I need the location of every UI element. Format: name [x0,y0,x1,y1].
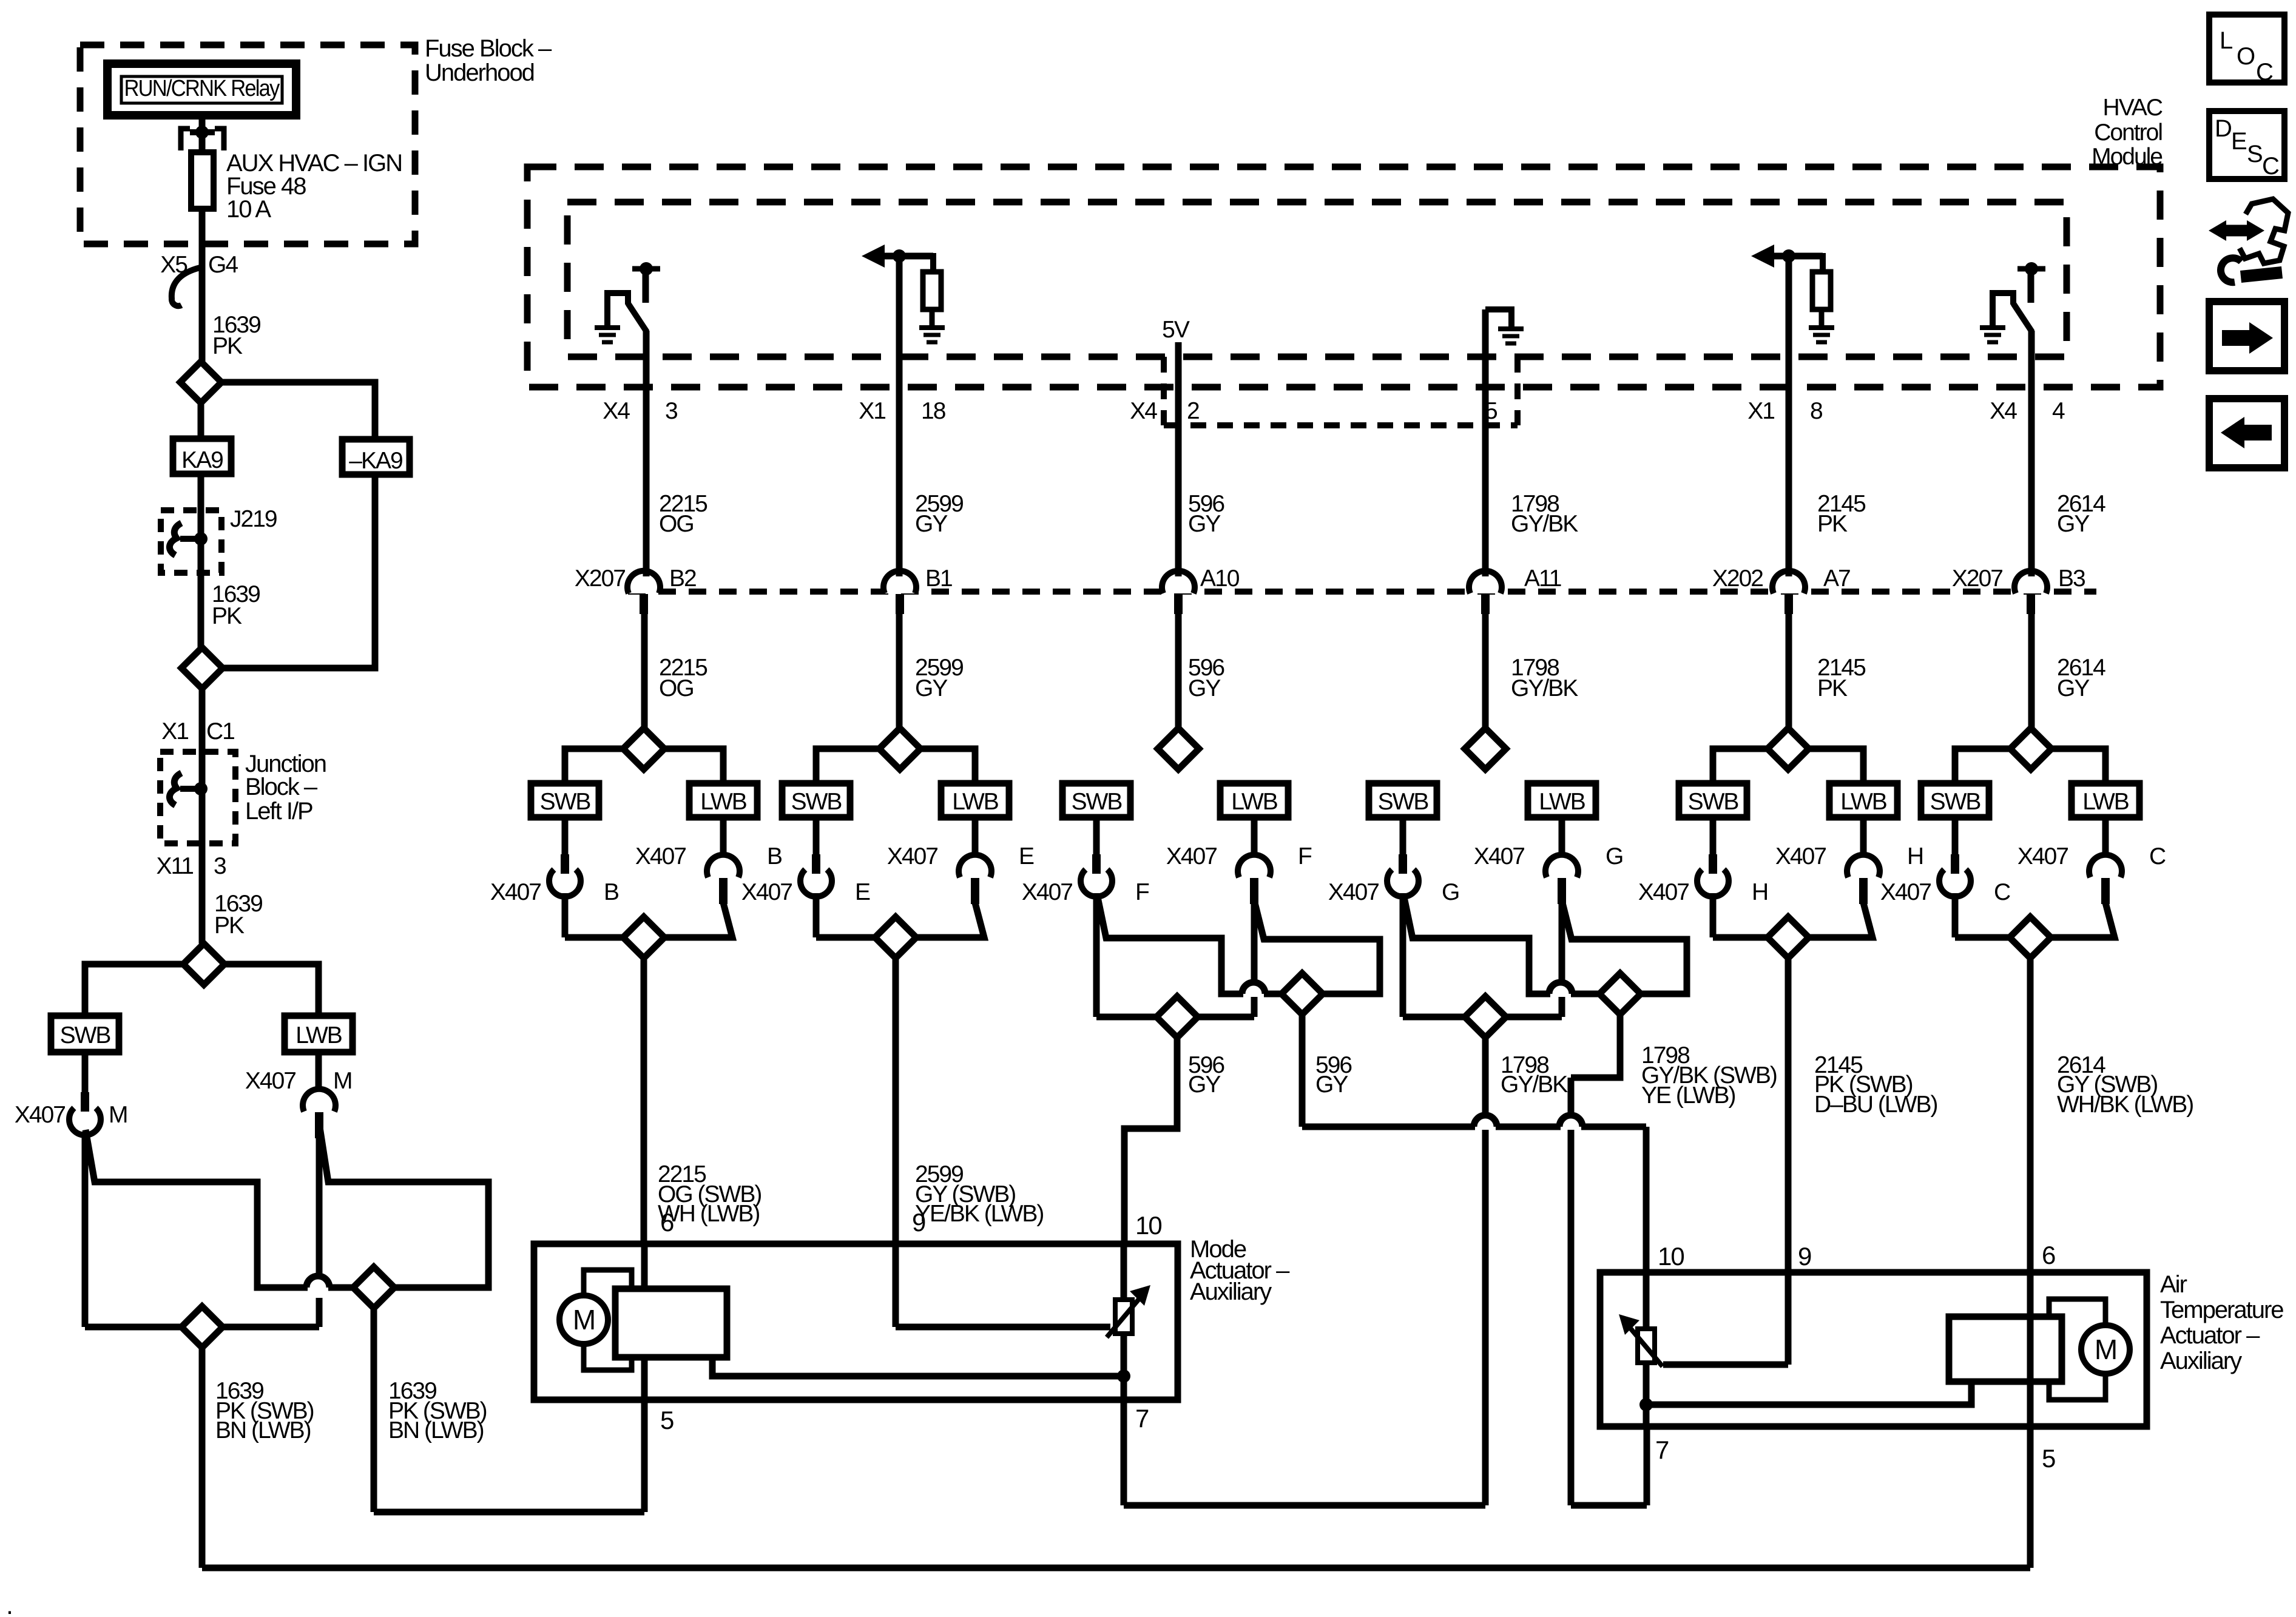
svg-text:Control: Control [2094,120,2162,146]
svg-text:X1: X1 [859,398,885,424]
svg-text:18: 18 [921,398,945,424]
svg-text:OG: OG [659,511,694,537]
svg-text:X4: X4 [1130,398,1157,424]
svg-text:Underhood: Underhood [425,59,534,86]
svg-text:A11: A11 [1524,565,1561,592]
svg-text:SWB: SWB [1378,789,1428,815]
svg-text:X202: X202 [1712,565,1763,592]
svg-text:GY: GY [915,511,948,537]
svg-text:SWB: SWB [1930,789,1980,815]
svg-text:5: 5 [660,1406,674,1434]
svg-text:X407: X407 [1328,879,1379,905]
svg-text:C: C [2149,843,2166,869]
svg-text:X407: X407 [1775,843,1826,869]
svg-text:PK: PK [1817,511,1848,537]
svg-text:E: E [855,879,870,905]
svg-text:4: 4 [2052,398,2065,424]
svg-text:PK: PK [1817,675,1848,701]
svg-text:B2: B2 [669,565,696,592]
svg-text:X407: X407 [887,843,937,869]
svg-text:6: 6 [2042,1241,2055,1269]
svg-text:G: G [1606,843,1622,869]
svg-text:O: O [2237,43,2255,70]
svg-text:LWB: LWB [2082,789,2129,815]
svg-text:X207: X207 [575,565,625,592]
svg-text:GY: GY [915,675,948,701]
svg-text:B1: B1 [925,565,952,592]
svg-text:5: 5 [2042,1444,2055,1473]
svg-text:7: 7 [1135,1404,1149,1433]
svg-text:X407: X407 [1638,879,1689,905]
svg-text:Left I/P: Left I/P [245,798,312,825]
svg-text:X407: X407 [1022,879,1072,905]
svg-text:YE/BK (LWB): YE/BK (LWB) [915,1201,1043,1227]
svg-text:H: H [1752,879,1768,905]
svg-text:SWB: SWB [791,789,842,815]
svg-text:GY: GY [2057,675,2090,701]
svg-text:X1: X1 [161,718,188,744]
svg-text:L: L [2220,27,2232,54]
svg-text:Fuse Block –: Fuse Block – [425,35,552,62]
svg-text:GY/BK: GY/BK [1511,511,1578,537]
svg-text:J219: J219 [230,506,277,532]
svg-text:LWB: LWB [1840,789,1886,815]
svg-text:M: M [109,1102,127,1128]
svg-text:9: 9 [1798,1242,1811,1271]
svg-text:GY: GY [1188,675,1221,701]
svg-text:Auxiliary: Auxiliary [1190,1278,1272,1305]
svg-text:SWB: SWB [60,1022,110,1048]
svg-text:PK: PK [214,913,245,939]
svg-text:5V: 5V [1162,317,1190,343]
svg-text:C: C [2256,59,2273,86]
svg-text:HVAC: HVAC [2103,95,2163,121]
svg-text:X407: X407 [245,1068,295,1094]
svg-text:10 A: 10 A [226,196,271,223]
svg-text:KA9: KA9 [181,447,223,473]
svg-text:Air: Air [2160,1271,2187,1298]
svg-text:A7: A7 [1823,565,1850,592]
svg-text:Actuator –: Actuator – [2160,1322,2260,1349]
svg-text:Module: Module [2092,144,2162,170]
svg-text:C: C [2262,153,2279,180]
svg-text:PK: PK [212,603,242,629]
svg-text:M: M [573,1304,595,1335]
svg-text:7: 7 [1655,1436,1669,1464]
svg-text:X407: X407 [1880,879,1931,905]
svg-text:X407: X407 [635,843,686,869]
svg-text:10: 10 [1658,1242,1684,1271]
svg-text:WH/BK (LWB): WH/BK (LWB) [2057,1092,2193,1118]
svg-text:C: C [1994,879,2010,905]
svg-text:X5: X5 [160,252,187,278]
svg-text:B: B [604,879,618,905]
svg-text:C1: C1 [206,718,234,744]
svg-text:LWB: LWB [1231,789,1277,815]
svg-text:GY: GY [2057,511,2090,537]
svg-text:X407: X407 [490,879,541,905]
svg-text:SWB: SWB [1688,789,1738,815]
svg-text:Block –: Block – [245,774,318,800]
svg-text:OG: OG [659,675,694,701]
svg-text:8: 8 [1810,398,1822,424]
svg-text:LWB: LWB [295,1022,342,1048]
svg-text:PK: PK [212,333,243,359]
svg-text:GY/BK: GY/BK [1511,675,1578,701]
svg-text:M: M [2095,1334,2116,1365]
svg-text:9: 9 [912,1208,925,1237]
svg-text:H: H [1907,843,1923,869]
svg-text:GY: GY [1188,511,1221,537]
svg-text:S: S [2247,141,2262,167]
svg-text:GY: GY [1188,1072,1221,1098]
svg-text:X407: X407 [1474,843,1524,869]
svg-text:YE (LWB): YE (LWB) [1641,1082,1735,1109]
svg-text:D–BU (LWB): D–BU (LWB) [1814,1092,1937,1118]
svg-text:Temperature: Temperature [2160,1297,2283,1323]
svg-text:X4: X4 [603,398,630,424]
svg-text:X407: X407 [741,879,792,905]
svg-text:SWB: SWB [540,789,590,815]
svg-text:LWB: LWB [700,789,746,815]
svg-text:X407: X407 [2017,843,2068,869]
svg-text:D: D [2215,115,2231,142]
svg-text:E: E [1019,843,1034,869]
svg-text:2: 2 [1187,398,1199,424]
svg-text:X11: X11 [157,853,194,879]
svg-text:G: G [1442,879,1459,905]
svg-text:E: E [2231,128,2246,155]
svg-text:5: 5 [1485,398,1497,424]
svg-text:Auxiliary: Auxiliary [2160,1348,2242,1374]
svg-text:LWB: LWB [1539,789,1585,815]
svg-text:X4: X4 [1990,398,2017,424]
svg-text:.: . [6,1591,12,1617]
svg-text:LWB: LWB [952,789,998,815]
svg-text:BN (LWB): BN (LWB) [215,1417,311,1443]
svg-text:GY/BK: GY/BK [1501,1072,1568,1098]
svg-text:RUN/CRNK Relay: RUN/CRNK Relay [124,76,280,101]
svg-text:B: B [767,843,782,869]
svg-text:X407: X407 [1166,843,1217,869]
svg-text:M: M [333,1068,352,1094]
svg-text:X1: X1 [1747,398,1774,424]
svg-text:–KA9: –KA9 [349,448,402,474]
svg-text:X207: X207 [1952,565,2002,592]
svg-text:X407: X407 [15,1102,65,1128]
svg-text:3: 3 [214,853,226,879]
svg-text:GY: GY [1315,1072,1348,1098]
svg-text:B3: B3 [2058,565,2085,592]
svg-text:F: F [1298,843,1312,869]
svg-text:A10: A10 [1200,565,1240,592]
svg-text:3: 3 [665,398,677,424]
svg-text:F: F [1135,879,1149,905]
svg-text:SWB: SWB [1072,789,1122,815]
svg-text:6: 6 [660,1208,674,1237]
svg-text:G4: G4 [208,252,238,278]
svg-text:BN (LWB): BN (LWB) [388,1417,484,1443]
svg-text:10: 10 [1135,1211,1161,1240]
